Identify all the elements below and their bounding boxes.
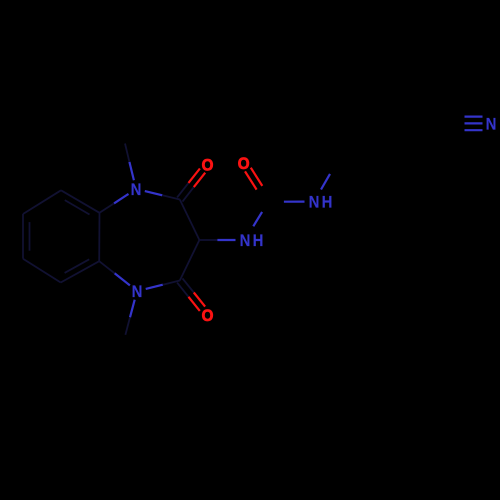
bond C3-C4 <box>180 240 200 281</box>
bond N5-C4 <box>146 285 163 289</box>
bond C3-NH <box>199 239 217 241</box>
benzene ring C6=C5a inner aromatic line <box>65 259 90 273</box>
bond C2-C3 <box>180 200 200 241</box>
bond N5-methyl <box>130 300 135 318</box>
svg-text:N: N <box>240 231 251 250</box>
nitrile C#N triple bond, N halves <box>465 115 483 117</box>
svg-text:H: H <box>253 231 264 250</box>
svg-text:N: N <box>486 115 497 134</box>
svg-text:O: O <box>202 306 214 325</box>
bond NH'-C(urea), N half <box>284 201 305 203</box>
carbonyl C2=O2 double bond <box>183 187 194 202</box>
benzene ring C8-C7 bond <box>22 214 24 259</box>
bond NH-C(urea), N half <box>253 212 262 226</box>
benzene ring C9a=C9 inner aromatic line <box>65 200 90 214</box>
benzene ring C8=C7 inner aromatic line <box>29 222 31 251</box>
benzene ring C9a-C9 bond <box>61 190 100 213</box>
benzene ring C9-C8 bond <box>23 190 61 214</box>
svg-text:N: N <box>309 193 320 212</box>
svg-text:O: O <box>238 154 250 173</box>
benzene ring C5a-C9a fusion bond <box>98 213 100 261</box>
benzene ring C6-C5a bond <box>61 261 99 282</box>
benzene ring C7-C6 bond <box>23 259 61 283</box>
urea C=O double bond, O halves <box>251 168 262 186</box>
carbonyl C4=O4 double bond <box>177 283 188 297</box>
bond N1-C2 <box>145 191 163 195</box>
svg-text:O: O <box>202 155 214 174</box>
bond N1-methyl <box>129 162 134 180</box>
svg-text:H: H <box>322 193 333 212</box>
bond NH'-phenyl ipso, N half <box>321 174 330 190</box>
bond N1-C9a <box>114 194 129 204</box>
svg-text:N: N <box>131 180 142 199</box>
svg-text:N: N <box>132 282 143 301</box>
bond N5-C5a <box>115 273 130 285</box>
